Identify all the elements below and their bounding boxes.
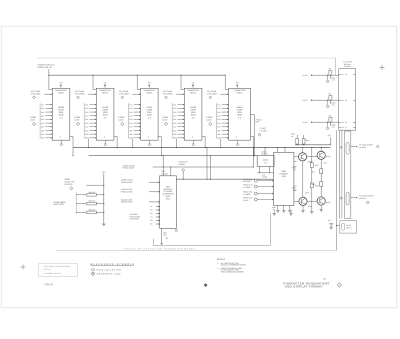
wire char clock bbox=[149, 181, 160, 183]
wire riser a bbox=[206, 148, 208, 180]
node rail diamond 3 bbox=[327, 122, 329, 127]
flip flop U410 bbox=[257, 155, 274, 166]
svg-text:CA2: CA2 bbox=[129, 107, 132, 110]
node source diamond upper U2050 bbox=[33, 96, 36, 99]
svg-text:AND DISPLAY FORMAT: AND DISPLAY FORMAT bbox=[285, 285, 323, 289]
svg-text:(CLOCK): (CLOCK) bbox=[65, 183, 73, 186]
wire bottom pin U2150 bbox=[104, 140, 106, 143]
svg-text:CTRL MSG: CTRL MSG bbox=[31, 93, 41, 96]
resistor R820 bbox=[76, 194, 86, 196]
character generator IC U2450 bbox=[229, 88, 251, 140]
svg-text:CA7: CA7 bbox=[41, 126, 44, 129]
svg-text:REG: REG bbox=[166, 198, 170, 201]
wire U401 to Q505 bbox=[294, 200, 299, 202]
resistor R507 bbox=[310, 163, 313, 168]
connector P110 body bbox=[345, 131, 351, 219]
resistor R822 bbox=[76, 203, 86, 205]
pin bracket data inputs U2450 bbox=[215, 103, 217, 138]
svg-text:CTRL MSG: CTRL MSG bbox=[207, 93, 217, 96]
node legend frame bbox=[39, 264, 78, 277]
pin bracket data inputs U2050 bbox=[39, 103, 41, 138]
capacitor C415 bbox=[329, 223, 333, 225]
wire U410 out b bbox=[269, 166, 271, 173]
svg-text:CA5: CA5 bbox=[217, 118, 220, 121]
wire U401 bottom pin 3 bbox=[289, 205, 291, 210]
wire +5V distribution bus bbox=[49, 74, 226, 76]
svg-text:TO U90: TO U90 bbox=[260, 129, 266, 132]
wire Q515 ground drop bbox=[320, 205, 322, 210]
wire into DL401 bbox=[336, 224, 339, 226]
wire alt char into U2050 bbox=[44, 93, 52, 95]
svg-text:VIA U970: VIA U970 bbox=[359, 197, 366, 200]
wire U410 out a bbox=[259, 166, 261, 173]
wire output drop U2150 bbox=[116, 137, 118, 148]
resistor R601 bbox=[329, 71, 332, 76]
svg-text:CA5: CA5 bbox=[41, 118, 44, 121]
ground lower bbox=[273, 210, 275, 214]
node source diamond upper U2450 bbox=[209, 96, 212, 99]
svg-text:CA5: CA5 bbox=[85, 118, 88, 121]
wire rail 1 bbox=[311, 74, 313, 76]
node harness diamond row1 bbox=[340, 146, 342, 148]
svg-text:CA5: CA5 bbox=[129, 118, 132, 121]
svg-text:ROM 2: ROM 2 bbox=[102, 91, 108, 94]
svg-text:CB2: CB2 bbox=[85, 133, 88, 136]
wire Q503-Q513 bbox=[307, 155, 317, 157]
svg-text:CA7: CA7 bbox=[217, 126, 220, 129]
pin D4 - 17 J101 bbox=[339, 126, 341, 128]
ground R509 bbox=[311, 197, 313, 212]
svg-text:CA2: CA2 bbox=[217, 107, 220, 110]
pin C3 - 16 J101 bbox=[339, 121, 341, 123]
wire alt char into U2450 bbox=[220, 93, 228, 95]
wire R519 to Q515 bbox=[320, 186, 322, 197]
svg-text:CA1: CA1 bbox=[41, 104, 44, 107]
pin bracket data inputs U2150 bbox=[83, 103, 85, 138]
wire bottom pin U2350 bbox=[192, 140, 194, 143]
svg-text:D4: D4 bbox=[150, 216, 152, 219]
svg-text:CTRL MSG: CTRL MSG bbox=[75, 93, 85, 96]
node tick below U330 bbox=[166, 238, 168, 239]
wire into U401 upper bbox=[258, 172, 274, 174]
node output diamond U2150 bbox=[104, 143, 107, 146]
svg-text:CA6: CA6 bbox=[41, 122, 44, 125]
svg-text:ROM: ROM bbox=[103, 114, 108, 117]
svg-text:CB3: CB3 bbox=[85, 137, 88, 140]
svg-text:NOTES:: NOTES: bbox=[217, 258, 226, 261]
svg-text:CA2: CA2 bbox=[85, 107, 88, 110]
svg-text:D1: D1 bbox=[150, 205, 152, 208]
node output diamond U2350 bbox=[192, 143, 195, 146]
svg-text:FROM U570B: FROM U570B bbox=[121, 201, 133, 204]
node diamond timing bbox=[182, 169, 185, 172]
node diamond below U330 bbox=[175, 229, 178, 232]
character generator IC U2350 bbox=[184, 88, 202, 140]
wire data bus L2 bbox=[89, 155, 258, 157]
svg-text:U410A: U410A bbox=[263, 158, 269, 161]
svg-text:D3: D3 bbox=[150, 212, 152, 215]
svg-text:CA6: CA6 bbox=[173, 122, 176, 125]
transistor Q513 bbox=[317, 151, 325, 159]
character generator IC U2250 bbox=[141, 88, 159, 140]
ground U330 bbox=[160, 243, 163, 245]
wire input FROM U510 bbox=[258, 186, 274, 188]
svg-text:DATA COLLECTOR: DATA COLLECTOR bbox=[97, 269, 122, 272]
wire Q513 emitter chain bbox=[320, 159, 322, 168]
wire strobe column U2350 bbox=[176, 139, 178, 148]
svg-text:CA6: CA6 bbox=[217, 122, 220, 125]
node source diamond upper U2150 bbox=[77, 96, 80, 99]
wire bus drop to U2450 bbox=[224, 75, 226, 89]
transistor Q505 bbox=[299, 197, 307, 205]
svg-text:U140: U140 bbox=[162, 119, 167, 122]
svg-text:CB1: CB1 bbox=[173, 129, 176, 132]
node output diamond U2450 bbox=[236, 143, 239, 146]
svg-text:CB1: CB1 bbox=[41, 129, 44, 132]
connector J101 bbox=[339, 69, 356, 131]
pin B2 - 15 J101 bbox=[339, 99, 341, 101]
svg-text:CA2: CA2 bbox=[173, 107, 176, 110]
wire harness right bbox=[339, 130, 341, 218]
node assembly diamond marker bbox=[204, 283, 208, 287]
node legend circle row bbox=[92, 272, 95, 275]
svg-text:CA3: CA3 bbox=[173, 111, 176, 114]
svg-text:U250 ROM: U250 ROM bbox=[130, 218, 139, 221]
svg-text:CB2: CB2 bbox=[41, 133, 44, 136]
svg-text:ROM: ROM bbox=[191, 114, 196, 117]
node source diamond upper U2250 bbox=[121, 96, 124, 99]
svg-text:CA1: CA1 bbox=[129, 104, 132, 107]
resistor R509 bbox=[310, 183, 313, 188]
pin bracket shift reg inputs bbox=[75, 192, 77, 213]
wire +5V mid rail bbox=[103, 174, 105, 223]
svg-text:CB2: CB2 bbox=[129, 133, 132, 136]
node output diamond U2250 bbox=[148, 143, 151, 146]
ground U401 pin 1 bbox=[276, 209, 279, 211]
svg-text:FROM U350-8: FROM U350-8 bbox=[123, 167, 135, 170]
pin bracket data inputs U2250 bbox=[127, 103, 129, 138]
wire bus drop to U2050 bbox=[48, 75, 50, 89]
node diamond out row2 bbox=[366, 201, 369, 204]
wire output drop U2350 bbox=[204, 137, 206, 148]
wire return path vertical bbox=[269, 213, 271, 246]
svg-text:D2: D2 bbox=[150, 209, 152, 212]
svg-text:U130: U130 bbox=[119, 119, 124, 122]
wire U401 to Q503 bbox=[294, 156, 299, 158]
wire load pulse bbox=[149, 191, 160, 193]
node legend diamond row bbox=[91, 268, 94, 271]
svg-text:CA4: CA4 bbox=[85, 115, 88, 118]
svg-text:CA3: CA3 bbox=[129, 111, 132, 114]
svg-text:CB1: CB1 bbox=[129, 129, 132, 132]
pin pad P110-1 bbox=[346, 142, 349, 154]
svg-text:Q513: Q513 bbox=[326, 155, 330, 158]
svg-text:CA1: CA1 bbox=[217, 104, 220, 107]
node source diamond U2050 bbox=[32, 122, 35, 125]
pin pad P110-2 bbox=[346, 192, 349, 205]
delay line DL401 bbox=[340, 221, 357, 233]
wire strobe column U2250 bbox=[132, 139, 134, 148]
svg-text:CB3: CB3 bbox=[41, 137, 44, 140]
svg-text:SHIFT REG: SHIFT REG bbox=[54, 203, 65, 206]
wire return stub bbox=[153, 239, 155, 246]
wire U401 bottom pin 1 bbox=[277, 205, 279, 210]
svg-text:CA2: CA2 bbox=[41, 107, 44, 110]
wire riser b bbox=[210, 156, 212, 180]
svg-text:U110: U110 bbox=[30, 119, 34, 122]
wire top pin b U401 bbox=[284, 148, 286, 153]
pin A1 - 14 J101 bbox=[339, 74, 341, 76]
svg-text:2 MHZ: 2 MHZ bbox=[262, 175, 267, 178]
svg-text:FROM U470B: FROM U470B bbox=[121, 191, 133, 194]
svg-text:VIA U950: VIA U950 bbox=[359, 146, 366, 149]
svg-text:U150: U150 bbox=[207, 119, 212, 122]
pin bracket data inputs U2350 bbox=[171, 103, 173, 138]
svg-text:H SWEEP: H SWEEP bbox=[243, 193, 252, 196]
wire Q505 ground drop bbox=[302, 205, 304, 210]
svg-text:CA1: CA1 bbox=[173, 104, 176, 107]
resistor R824 bbox=[76, 211, 86, 213]
svg-text:READOUT: READOUT bbox=[243, 180, 251, 183]
wire output row 1 bbox=[351, 146, 356, 148]
svg-text:CB2: CB2 bbox=[173, 133, 176, 136]
svg-text:(2) 3A: (2) 3A bbox=[303, 121, 309, 124]
wire feed drop from label bbox=[48, 69, 50, 75]
wire top pin b U330 bbox=[170, 167, 172, 176]
pin stubs U401 right bbox=[294, 161, 297, 163]
wire output drop U2050 bbox=[72, 137, 74, 156]
svg-text:CB3: CB3 bbox=[129, 137, 132, 140]
node source diamond U2250 bbox=[121, 122, 124, 125]
resistor R519 bbox=[320, 182, 323, 187]
wire input FROM U570 bbox=[258, 199, 274, 201]
node rail diamond 2 bbox=[327, 100, 329, 105]
registration cross top right bbox=[380, 67, 385, 69]
svg-text:GROUNDED LOAD: GROUNDED LOAD bbox=[97, 273, 121, 276]
svg-text:CA6: CA6 bbox=[129, 122, 132, 125]
svg-text:CA1: CA1 bbox=[85, 104, 88, 107]
wire cluster feed bbox=[295, 144, 330, 146]
svg-text:(2) 2A: (2) 2A bbox=[303, 99, 309, 102]
wire top feed line bbox=[38, 57, 336, 59]
svg-text:ROM: ROM bbox=[147, 114, 152, 117]
svg-text:CB1: CB1 bbox=[217, 129, 220, 132]
wire alt char into U2250 bbox=[132, 93, 140, 95]
registration cross left bbox=[21, 266, 26, 268]
svg-text:ROM 4: ROM 4 bbox=[190, 91, 196, 94]
svg-text:TIMING: TIMING bbox=[179, 163, 186, 166]
svg-text:CTRL MSG: CTRL MSG bbox=[163, 93, 173, 96]
wire Q513 top bbox=[320, 148, 322, 152]
node circle FROM U510 bbox=[254, 185, 257, 188]
svg-text:CA3: CA3 bbox=[85, 111, 88, 114]
svg-text:ROM 1: ROM 1 bbox=[58, 91, 64, 94]
character generator IC U2050 bbox=[52, 88, 70, 140]
node output diamond U2050 bbox=[60, 143, 63, 146]
svg-text:CA4: CA4 bbox=[41, 115, 44, 118]
wire input FROM U550 bbox=[258, 193, 274, 195]
format generator U401 bbox=[274, 152, 294, 205]
ground mid rail bbox=[103, 222, 105, 224]
svg-text:FROM U150 <2>: FROM U150 <2> bbox=[38, 66, 53, 69]
node title diamond bbox=[337, 283, 341, 287]
wire rail 3 bbox=[311, 121, 313, 123]
node diamond out row1 bbox=[376, 145, 379, 148]
svg-text:D5: D5 bbox=[150, 219, 152, 222]
svg-text:Z AXIS: Z AXIS bbox=[243, 199, 249, 202]
transistor Q515 bbox=[317, 197, 325, 205]
svg-text:CB3: CB3 bbox=[173, 137, 176, 140]
wire rail 2 bbox=[311, 99, 313, 101]
wire fold rule bbox=[56, 249, 336, 251]
svg-text:D6: D6 bbox=[150, 223, 152, 226]
svg-text:GEN: GEN bbox=[282, 175, 287, 178]
wire U2450 side output bbox=[251, 114, 255, 116]
svg-text:CA3: CA3 bbox=[41, 111, 44, 114]
svg-text:THE SCHEMATIC NUMBER: THE SCHEMATIC NUMBER bbox=[221, 271, 245, 274]
svg-text:U120: U120 bbox=[74, 119, 79, 122]
wire top pin a U401 bbox=[277, 148, 279, 153]
wire R517 lower bbox=[320, 174, 322, 182]
wire Q505-Q515 bbox=[307, 200, 317, 202]
svg-text:ROM 3: ROM 3 bbox=[146, 91, 152, 94]
svg-text:FROM U570A: FROM U570A bbox=[121, 181, 133, 184]
node circle FROM U530 bbox=[254, 179, 257, 182]
svg-text:COUNT: COUNT bbox=[162, 173, 169, 176]
transistor Q503 bbox=[299, 153, 307, 161]
svg-text:V SWEEP: V SWEEP bbox=[243, 186, 252, 189]
node circle FROM U570 bbox=[254, 198, 257, 201]
wire alt char into U2350 bbox=[176, 93, 184, 95]
node diamond box5 side bbox=[258, 133, 261, 136]
node harness diamond row2 bbox=[340, 197, 342, 199]
wire blank gate bbox=[149, 201, 160, 203]
svg-text:CTRL MSG: CTRL MSG bbox=[119, 93, 129, 96]
resistor R603 bbox=[329, 96, 332, 101]
wire Q503 emitter chain bbox=[302, 161, 304, 197]
wire output drop U2250 bbox=[160, 137, 162, 156]
wire bottom pin U2050 bbox=[60, 140, 62, 143]
wire U401 bottom pin 2 bbox=[283, 205, 285, 210]
wire timing drop bbox=[182, 172, 184, 180]
svg-text:ROM: ROM bbox=[59, 114, 64, 117]
svg-text:FORMAT: FORMAT bbox=[280, 173, 289, 176]
node source diamond upper U2350 bbox=[165, 96, 168, 99]
svg-text:ROM: ROM bbox=[237, 114, 242, 117]
svg-text:CB3: CB3 bbox=[217, 137, 220, 140]
wire output drop U2450 bbox=[253, 137, 255, 156]
wire return path horizontal bbox=[154, 245, 271, 247]
wire harness left bbox=[335, 130, 337, 250]
svg-text:CA7: CA7 bbox=[129, 126, 132, 129]
wire data bus L3 bbox=[153, 166, 254, 168]
svg-text:CB2: CB2 bbox=[217, 133, 220, 136]
resistor R523 bbox=[302, 139, 305, 145]
svg-text:CA7: CA7 bbox=[173, 126, 176, 129]
node source diamond U2450 bbox=[209, 122, 212, 125]
resistor R521 bbox=[296, 139, 299, 145]
svg-text:CA4: CA4 bbox=[217, 115, 220, 118]
ground U401 pin 3 bbox=[288, 209, 291, 211]
ground lower bbox=[290, 210, 292, 214]
wire strobe column U2150 bbox=[88, 139, 90, 148]
svg-text:(2) 1A: (2) 1A bbox=[303, 74, 309, 77]
svg-text:BOARD: BOARD bbox=[344, 65, 351, 68]
wire strobe column U2450 bbox=[220, 139, 222, 148]
svg-text:Q515: Q515 bbox=[326, 201, 330, 204]
wire riser c bbox=[252, 148, 254, 167]
wire input FROM U530 bbox=[258, 180, 274, 182]
wire U330 bottom pin bbox=[161, 228, 163, 243]
svg-text:TYPICAL OF CHARACTER GENERA: TYPICAL OF CHARACTER GENERATOR BOARD bbox=[123, 247, 195, 250]
wire top pin U410 bbox=[264, 148, 266, 156]
wire bottom pin U2450 bbox=[237, 140, 239, 143]
wire bus drop to U2350 bbox=[180, 75, 182, 89]
resistor R605 bbox=[329, 118, 332, 123]
wire serial out bbox=[176, 178, 273, 180]
node source diamond U2350 bbox=[164, 122, 167, 125]
character generator IC U2150 bbox=[96, 88, 114, 140]
svg-text:Q505: Q505 bbox=[308, 205, 312, 208]
wire bus drop to U2250 bbox=[136, 75, 138, 89]
svg-text:CA4: CA4 bbox=[129, 115, 132, 118]
svg-text:CA4: CA4 bbox=[173, 115, 176, 118]
svg-text:UNLESS OTHERWISE NOTED: UNLESS OTHERWISE NOTED bbox=[221, 264, 247, 267]
svg-text:CA5: CA5 bbox=[173, 118, 176, 121]
wire harness third bbox=[341, 130, 343, 218]
node diamond from U470 bbox=[70, 187, 73, 190]
wire alt char into U2150 bbox=[88, 93, 96, 95]
wire Q503 top node bbox=[302, 148, 304, 153]
svg-text:7904: 7904 bbox=[44, 282, 53, 286]
resistor R517 bbox=[320, 169, 323, 174]
svg-text:CB1: CB1 bbox=[85, 129, 88, 132]
wire bus drop to U2150 bbox=[92, 75, 94, 89]
node rail diamond 1 bbox=[327, 75, 329, 80]
svg-text:CA7: CA7 bbox=[85, 126, 88, 129]
wire top pin a U330 bbox=[162, 156, 164, 176]
svg-text:Q503: Q503 bbox=[308, 160, 312, 163]
wire output row 2 bbox=[351, 197, 356, 199]
wire clock feed bbox=[86, 184, 104, 186]
wire bottom pin U2250 bbox=[149, 140, 151, 143]
shift register U330 bbox=[160, 176, 177, 229]
wire data bus L1 bbox=[73, 147, 330, 149]
svg-text:CA3: CA3 bbox=[217, 111, 220, 114]
svg-text:CA6: CA6 bbox=[85, 122, 88, 125]
svg-text:ROM 5: ROM 5 bbox=[237, 91, 243, 94]
node circle FROM U550 bbox=[254, 192, 257, 195]
node source diamond U2150 bbox=[76, 122, 79, 125]
svg-text:.001: .001 bbox=[163, 234, 166, 237]
wire drop to P rail row1 bbox=[335, 58, 337, 75]
svg-text:DELAY: DELAY bbox=[346, 227, 352, 230]
ground U401 pin 2 bbox=[282, 209, 285, 211]
